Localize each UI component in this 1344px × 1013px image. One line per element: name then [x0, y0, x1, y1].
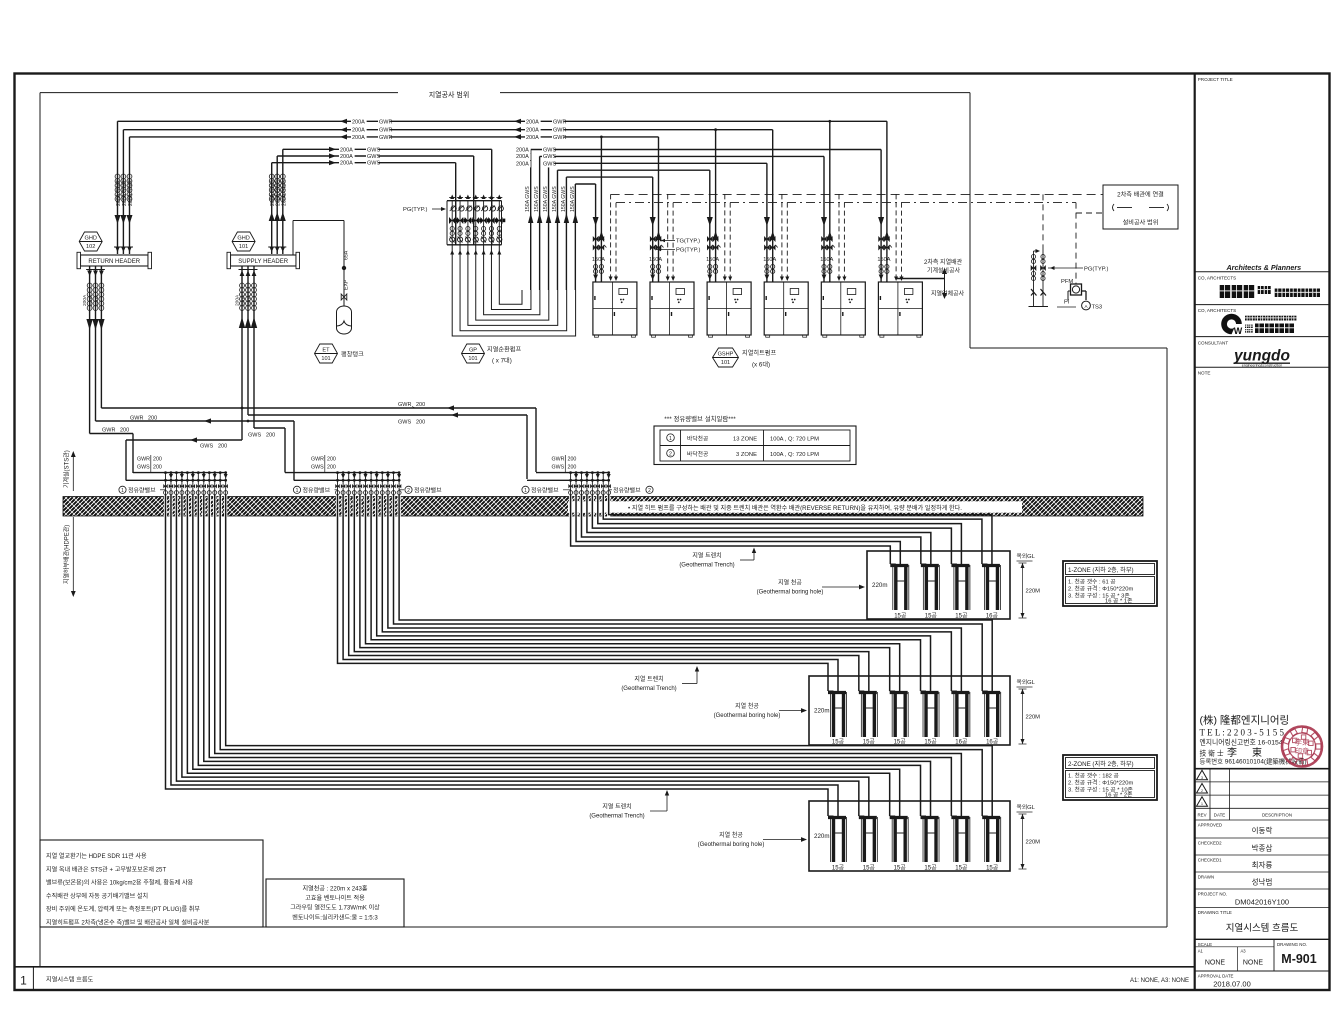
svg-text:DRAWN: DRAWN [1198, 875, 1214, 880]
heat pump symbol GSHP-101 and label [713, 348, 777, 369]
svg-text:200A: 200A [340, 147, 353, 153]
svg-text:GWR: GWR [398, 402, 411, 408]
svg-text:지열히트펌프 2차측(냉온수 측)밸브 및 배관공사 일체: 지열히트펌프 2차측(냉온수 측)밸브 및 배관공사 일체 설비공사분 [46, 919, 210, 927]
svg-text:16공: 16공 [955, 739, 968, 746]
svg-text:1: 1 [524, 488, 527, 494]
svg-text:150A: 150A [649, 257, 662, 263]
svg-text:DATE: DATE [1214, 813, 1225, 818]
svg-text:2. 천공 규격 : Φ150*220m: 2. 천공 규격 : Φ150*220m [1068, 585, 1133, 593]
svg-text:M-901: M-901 [1281, 952, 1316, 966]
general notes box [40, 840, 263, 927]
title block left edge [1194, 73, 1196, 990]
svg-text:GWR: GWR [311, 457, 324, 463]
svg-text:200A: 200A [352, 135, 365, 141]
svg-text:3 ZONE: 3 ZONE [736, 452, 757, 458]
secondary scope dashed line upper [611, 193, 1103, 195]
borehole group 1 hole count labels [894, 613, 998, 620]
expansion tank symbol ET-101 [315, 344, 338, 363]
manifold2 flow valve tag left [293, 486, 337, 494]
manifold3 flow valve tag right [609, 486, 653, 494]
pump group PG(TYP.) gauge label [403, 207, 446, 213]
trench label 3 [589, 790, 669, 820]
svg-text:200: 200 [416, 420, 425, 426]
svg-text:yungdo: yungdo [1233, 348, 1290, 365]
svg-text:15공: 15공 [894, 739, 907, 746]
svg-text:220m: 220m [814, 708, 829, 715]
reverse return note in hatch [568, 501, 1022, 512]
svg-text:T E L : 2 2 0 3 - 5 1 5 5: T E L : 2 2 0 3 - 5 1 5 5 [1200, 728, 1285, 738]
trench pipe bundle 3 (manifold1 to group3) [166, 495, 993, 816]
svg-text:GWS: GWS [137, 465, 150, 471]
svg-text:밸브류(보온용)의 사용은 10kg/cm2용 주철제, 황: 밸브류(보온용)의 사용은 10kg/cm2용 주철제, 황동제 사용 [46, 879, 194, 887]
pipe GWR main top (3 lines with left bends to return header) [118, 120, 887, 282]
svg-text:15공: 15공 [925, 613, 938, 620]
svg-text:16 공 * 1존: 16 공 * 1존 [1105, 598, 1133, 605]
dashed drop to measuring station [1042, 194, 1044, 248]
svg-text:바닥천공: 바닥천공 [687, 450, 709, 458]
red approval stamp [1282, 727, 1322, 767]
svg-text:( x 7대): ( x 7대) [492, 357, 512, 365]
svg-text:• 지열 히트 펌프를 구성하는 배관 및 지중 트렌치 배: • 지열 히트 펌프를 구성하는 배관 및 지중 트렌치 배관은 역환수 배관(… [628, 504, 962, 512]
underground HDPE label [63, 517, 76, 597]
balancing valve assembly pipes [1029, 248, 1049, 307]
svg-text:200A: 200A [526, 135, 539, 141]
manifold3 flow valve tag left [522, 486, 571, 494]
pipe run GWR to manifold2 [96, 416, 295, 481]
svg-text:옥외GL: 옥외GL [1017, 804, 1036, 811]
svg-text:지열 열교환기는 HDPE SDR 11관 사용: 지열 열교환기는 HDPE SDR 11관 사용 [46, 852, 147, 860]
svg-text:100A , Q: 720 LPM: 100A , Q: 720 LPM [770, 452, 819, 458]
svg-text:200: 200 [218, 444, 227, 450]
return header GHD-102 symbol [79, 232, 102, 251]
manifold 1 valve drops [163, 471, 228, 497]
svg-text:1: 1 [20, 974, 27, 988]
pipe GWS supply (3 lines header to circulating pumps) [272, 149, 492, 254]
svg-text:200A: 200A [82, 294, 88, 306]
GWS 200A-GWS labels set2 [515, 147, 556, 167]
svg-text:150A GWS: 150A GWS [561, 186, 567, 212]
svg-text:200A GWS: 200A GWS [270, 180, 276, 206]
svg-text:150A: 150A [706, 257, 719, 263]
svg-text:2018.07.00: 2018.07.00 [1213, 980, 1251, 989]
svg-text:벤토나이트:실리카샌드:물 = 1:5:3: 벤토나이트:실리카샌드:물 = 1:5:3 [292, 913, 378, 921]
svg-text:APPROVAL DATE: APPROVAL DATE [1198, 973, 1234, 978]
svg-text:技 衛 士: 技 衛 士 [1200, 749, 1224, 758]
pump symbol GP-101 and label [462, 344, 522, 365]
svg-text:200A GWR: 200A GWR [122, 180, 128, 206]
svg-text:15공: 15공 [955, 865, 968, 872]
drawing area inner frame [39, 93, 41, 967]
svg-text:15공: 15공 [832, 865, 845, 872]
svg-text:1-ZONE (지하 2층, 하부): 1-ZONE (지하 2층, 하부) [1068, 566, 1134, 574]
svg-text:1: 1 [669, 436, 672, 442]
svg-text:지열 천공: 지열 천공 [735, 702, 759, 710]
GWR riser flex connectors and 200A GWR labels [115, 174, 134, 206]
svg-text:101: 101 [239, 244, 248, 250]
svg-text:150A GWS: 150A GWS [552, 186, 558, 212]
svg-text:200A: 200A [516, 161, 529, 167]
svg-text:GWS: GWS [311, 465, 324, 471]
svg-text:NOTE: NOTE [1198, 371, 1211, 376]
svg-text:16공: 16공 [986, 739, 999, 746]
svg-text:150A GWS: 150A GWS [525, 186, 531, 212]
pipe run GWR to manifold1 [90, 428, 133, 474]
boring spec notes box [266, 879, 404, 927]
GWR riser header tick arrows [114, 247, 133, 252]
svg-text:101: 101 [468, 356, 477, 362]
trench label 2 [621, 666, 699, 692]
supply drops 200A labels [235, 294, 253, 306]
svg-text:EXP: EXP [344, 279, 350, 290]
svg-text:200A: 200A [94, 294, 100, 306]
svg-text:PI: PI [1064, 300, 1070, 306]
svg-text:(x 6대): (x 6대) [752, 361, 770, 369]
approval rows [1195, 823, 1329, 890]
svg-text:101: 101 [321, 356, 330, 362]
svg-text:정유량밸브: 정유량밸브 [414, 486, 442, 494]
svg-text:TS3: TS3 [1092, 305, 1103, 311]
svg-text:200: 200 [153, 457, 162, 463]
svg-text:200A: 200A [352, 128, 365, 134]
svg-text:(Geothermal boring hole): (Geothermal boring hole) [698, 842, 765, 848]
svg-text:고효율 벤토나이트 적용: 고효율 벤토나이트 적용 [305, 894, 365, 902]
svg-text:150A: 150A [820, 257, 833, 263]
junction dots [241, 407, 250, 423]
svg-text:100A , Q: 720 LPM: 100A , Q: 720 LPM [770, 436, 819, 442]
svg-text:지열천공 : 220m x 243홀: 지열천공 : 220m x 243홀 [303, 885, 368, 893]
svg-text:1. 천공 갯수 : 182 공: 1. 천공 갯수 : 182 공 [1068, 772, 1120, 780]
svg-text:200A GWS: 200A GWS [276, 180, 282, 206]
manifold 3 buses [527, 473, 610, 481]
svg-text:GWR: GWR [553, 135, 566, 141]
svg-text:SUPPLY HEADER: SUPPLY HEADER [238, 259, 288, 265]
scope split labels at HP6 [897, 258, 965, 299]
svg-text:지열 옥내 배관은 STS관 + 고무발포보온재 25T: 지열 옥내 배관은 STS관 + 고무발포보온재 25T [46, 865, 166, 873]
trench pipe bundle 1 (manifold3 to group1) [571, 495, 992, 564]
GWS riser flex connectors and 200A GWS labels [269, 174, 287, 206]
svg-text:2: 2 [669, 452, 672, 458]
svg-text:1: 1 [296, 488, 299, 494]
svg-text:150A: 150A [763, 257, 776, 263]
svg-text:200: 200 [416, 402, 425, 408]
svg-text:15공: 15공 [894, 613, 907, 620]
manifold 3 bus tick arrows [574, 474, 611, 479]
scale and drawing number cells [1195, 939, 1329, 971]
svg-text:지열시스템 흐름도: 지열시스템 흐름도 [46, 976, 94, 984]
title block CO.ARCHITECTS 1 tomoon logo [1195, 276, 1329, 305]
svg-text:200A GWR: 200A GWR [128, 180, 134, 206]
dashed drop to PG line [1076, 203, 1103, 284]
svg-text:REV: REV [1197, 813, 1206, 818]
svg-text:지열히트펌프: 지열히트펌프 [742, 349, 776, 357]
svg-text:200A: 200A [340, 154, 353, 160]
svg-text:(Geothermal Trench): (Geothermal Trench) [679, 563, 734, 569]
svg-text:16공: 16공 [986, 613, 999, 620]
borehole group box 2 [809, 676, 1010, 745]
svg-text:ET: ET [322, 347, 330, 353]
svg-text:200A: 200A [247, 294, 253, 306]
svg-text:정유량밸브: 정유량밸브 [531, 486, 559, 494]
return header vessel [77, 252, 152, 268]
pump suction drops through group [456, 201, 492, 245]
svg-text:옥외GL: 옥외GL [1017, 553, 1036, 560]
pipe run GWR main to manifold3 upper [101, 402, 536, 472]
secondary connection note box [1103, 185, 1178, 229]
svg-text:150A: 150A [877, 257, 890, 263]
expansion tank relief valve [341, 294, 347, 300]
GWR flow arrows and 200A-GWR labels set1 [340, 119, 392, 141]
boring hole label 3 [698, 831, 807, 848]
svg-text:1. 천공 갯수 : 61 공: 1. 천공 갯수 : 61 공 [1068, 578, 1116, 586]
engineering firm info block [1200, 714, 1307, 766]
svg-text:2차측 지열배관: 2차측 지열배관 [924, 258, 963, 266]
svg-text:200: 200 [327, 465, 336, 471]
svg-text:NONE: NONE [1243, 960, 1264, 967]
supply header bottom pipes with flex and arrows [239, 266, 258, 440]
outdoor GL dimension group1 [1017, 553, 1041, 618]
title block architects-planners line [1195, 263, 1329, 272]
title block CO.ARCHITECTS 2 chungwoo logo [1195, 308, 1329, 337]
bottom title strip line [14, 966, 1195, 968]
svg-text:A1: A1 [1198, 949, 1204, 954]
strip cell divider [32, 967, 34, 990]
svg-text:印章: 印章 [1295, 747, 1309, 756]
svg-text:2: 2 [648, 488, 651, 494]
title block CONSULTANT yungdo logo [1195, 341, 1329, 368]
svg-text:지열공사 범위: 지열공사 범위 [429, 90, 470, 99]
svg-text:PROJECT NO.: PROJECT NO. [1198, 892, 1227, 897]
circulating pumps x7 with gauges and valves [449, 195, 505, 255]
svg-text:101: 101 [721, 360, 730, 366]
pump discharge nested U-turn pipes [452, 245, 575, 336]
manifold 1 buses [126, 473, 227, 481]
svg-text:GWR: GWR [552, 457, 565, 463]
svg-text:GWR: GWR [553, 128, 566, 134]
svg-text:200: 200 [120, 428, 129, 434]
svg-text:150A: 150A [592, 257, 605, 263]
svg-text:200A: 200A [241, 294, 247, 306]
svg-text:150A GWS: 150A GWS [543, 186, 549, 212]
svg-text:GWS: GWS [367, 147, 380, 153]
svg-text:바닥천공: 바닥천공 [687, 434, 709, 442]
svg-text:(株) 隆都엔지니어링: (株) 隆都엔지니어링 [1200, 714, 1290, 727]
outdoor GL dimension group3 [1017, 804, 1041, 869]
temperature sensor TS3 [1082, 301, 1103, 310]
borehole group 2 hole count labels [832, 739, 999, 746]
svg-text:CO, ARCHITECTS: CO, ARCHITECTS [1198, 276, 1237, 281]
svg-text:GWS: GWS [543, 148, 556, 154]
svg-text:GWS: GWS [543, 154, 556, 160]
secondary scope dash-dot line lower [616, 202, 1076, 204]
svg-text:15공: 15공 [832, 739, 845, 746]
assembly valves column2 [1040, 255, 1046, 296]
TG and PG typ labels at HP2 [656, 239, 700, 254]
svg-text:PROJECT TITLE: PROJECT TITLE [1198, 77, 1233, 82]
svg-text:16 공 * 2존: 16 공 * 2존 [1105, 792, 1133, 799]
svg-text:15공: 15공 [986, 865, 999, 872]
svg-text:1: 1 [121, 488, 124, 494]
supply header vessel [227, 252, 300, 268]
svg-text:옥외GL: 옥외GL [1017, 679, 1036, 686]
manifold 2 valve drops [335, 471, 401, 497]
svg-text:李: 李 [1227, 746, 1237, 759]
svg-text:220m: 220m [872, 582, 887, 589]
svg-text:지열 트렌치: 지열 트렌치 [602, 803, 631, 811]
svg-text:SCALE: SCALE [1198, 942, 1212, 947]
svg-text:GHD: GHD [237, 235, 249, 241]
heat pump secondary dashed pipes [609, 194, 904, 282]
svg-text:15공: 15공 [955, 613, 968, 620]
return header bottom pipes with flex and arrows [86, 266, 105, 434]
svg-text:220m: 220m [814, 833, 829, 840]
svg-text:200A: 200A [516, 148, 529, 154]
svg-text:정유량밸브: 정유량밸브 [613, 486, 641, 494]
svg-text:설비공사 범위: 설비공사 범위 [1123, 219, 1159, 227]
svg-text:200A: 200A [235, 294, 241, 306]
svg-text:기계실(STS관): 기계실(STS관) [63, 450, 71, 488]
svg-text:지열 트렌치: 지열 트렌치 [692, 552, 721, 560]
pipe run GWS to manifold1 [126, 437, 242, 480]
svg-text:CHECKED2: CHECKED2 [1198, 841, 1222, 846]
borehole group box 1 [867, 551, 1010, 619]
assembly valves column1 [1031, 255, 1037, 296]
machine room STS label [63, 450, 76, 491]
manifold 3 valve drops [568, 471, 610, 497]
svg-text:장비 주위에 온도계, 압력계 또는 측정포트(PT PLU: 장비 주위에 온도계, 압력계 또는 측정포트(PT PLUG)를 취부 [46, 905, 200, 913]
svg-text:GWR: GWR [553, 119, 566, 125]
borehole group 2 U-tubes [828, 691, 1001, 737]
borehole group 1 U-tubes [890, 564, 1000, 610]
borehole group 3 U-tubes [828, 816, 1001, 862]
riser up arrows [528, 213, 578, 223]
svg-text:박종삼: 박종삼 [1252, 843, 1273, 853]
svg-text:DESCRIPTION: DESCRIPTION [1262, 813, 1292, 818]
svg-text:RETURN HEADER: RETURN HEADER [88, 259, 140, 265]
svg-text:15공: 15공 [894, 865, 907, 872]
ground hatch band [63, 497, 1143, 517]
svg-text:200: 200 [266, 433, 275, 439]
svg-text:지열 천공: 지열 천공 [719, 831, 743, 839]
svg-text:A3: A3 [1241, 949, 1247, 954]
pressure indicator PI [1057, 300, 1076, 308]
svg-text:GWR: GWR [379, 119, 392, 125]
manifold 2 bus tick arrows [341, 474, 401, 479]
svg-text:엔지니어링신고번호 16-0154: 엔지니어링신고번호 16-0154 [1200, 738, 1283, 747]
svg-text:2. 천공 규격 : Φ150*220m: 2. 천공 규격 : Φ150*220m [1068, 779, 1133, 787]
trench label 1 [679, 548, 756, 569]
svg-text:GWS: GWS [248, 433, 261, 439]
svg-text:15공: 15공 [863, 739, 876, 746]
GWR 200A-GWR labels set2 [514, 119, 566, 141]
svg-text:200A: 200A [516, 154, 529, 160]
svg-text:2차측 배관에 연결: 2차측 배관에 연결 [1117, 191, 1164, 199]
flow valve schedule table [654, 426, 856, 465]
svg-text:200: 200 [568, 457, 577, 463]
svg-text:DRAWING TITLE: DRAWING TITLE [1198, 910, 1232, 915]
expansion tank shutoff dot valve [342, 266, 346, 270]
svg-text:GWS: GWS [367, 154, 380, 160]
svg-text:GWR: GWR [130, 416, 143, 422]
svg-text:(Geothermal Trench): (Geothermal Trench) [621, 686, 676, 692]
svg-text:200A: 200A [352, 119, 365, 125]
svg-text:*** 정유량밸브 설치일람***: *** 정유량밸브 설치일람*** [664, 414, 736, 423]
manifold3 GWR/GWS-200 labels [552, 455, 577, 473]
GWR riser down arrows [115, 215, 133, 224]
svg-text:13 ZONE: 13 ZONE [733, 436, 757, 442]
svg-text:李東: 李東 [1295, 737, 1311, 747]
svg-text:15공: 15공 [924, 865, 937, 872]
svg-text:(Geothermal boring hole): (Geothermal boring hole) [714, 713, 781, 719]
manifold 1 bus tick arrows [169, 474, 228, 479]
GWS riser up arrows [269, 212, 286, 221]
svg-text:GWS: GWS [543, 161, 556, 167]
svg-text:최자룡: 최자룡 [1252, 860, 1273, 870]
boring hole label 1 [757, 579, 865, 596]
svg-text:GHD: GHD [84, 235, 96, 241]
svg-text:DRAWING NO.: DRAWING NO. [1277, 942, 1307, 947]
flow meter PFM [1061, 279, 1086, 300]
supply header GHD-101 symbol [232, 232, 255, 251]
svg-text:APPROVED: APPROVED [1198, 823, 1222, 828]
svg-text:(Geothermal boring hole): (Geothermal boring hole) [757, 590, 824, 596]
svg-text:200A: 200A [526, 119, 539, 125]
borehole group 3 hole count labels [832, 865, 999, 872]
svg-text:지열 천공: 지열 천공 [778, 579, 802, 587]
project number cell [1195, 892, 1329, 908]
svg-text:2: 2 [1201, 789, 1203, 793]
svg-text:15공: 15공 [924, 739, 937, 746]
boring hole label 2 [714, 702, 807, 719]
manifold2 GWR/GWS-200 labels [311, 455, 336, 473]
svg-text:200: 200 [327, 457, 336, 463]
pipe run GWS main to manifold3 lower [248, 412, 527, 479]
svg-text:CHECKED1: CHECKED1 [1198, 858, 1222, 863]
svg-text:3: 3 [1201, 776, 1203, 780]
svg-text:220M: 220M [1026, 840, 1041, 846]
svg-text:102: 102 [86, 244, 95, 250]
svg-text:그라우팅 열전도도 1.73W/mK 이상: 그라우팅 열전도도 1.73W/mK 이상 [290, 904, 380, 912]
svg-text:지열 트렌치: 지열 트렌치 [634, 675, 663, 683]
svg-text:GWR: GWR [379, 128, 392, 134]
assembly PG(TYP.) label [1048, 266, 1108, 273]
approval date cell [1198, 973, 1251, 988]
svg-text:PG(TYP.): PG(TYP.) [403, 207, 427, 213]
circulating pump group buses [447, 201, 502, 245]
svg-text:지열업체공사: 지열업체공사 [931, 290, 965, 298]
svg-text:200: 200 [153, 465, 162, 471]
heat pump boxes x6 [593, 282, 923, 337]
heat pump 150A labels [592, 257, 891, 263]
svg-text:팽창탱크: 팽창탱크 [341, 351, 364, 359]
manifold1 flow valve tag [119, 486, 166, 494]
svg-text:지열시스템 흐름도: 지열시스템 흐름도 [1226, 922, 1299, 934]
svg-text:東: 東 [1252, 746, 1262, 759]
svg-text:GWR: GWR [137, 457, 150, 463]
svg-text:200: 200 [568, 465, 577, 471]
GWS flow arrows and 200A-GWS labels set1 [329, 147, 380, 167]
svg-text:GSHP: GSHP [718, 351, 734, 357]
zone info box 2-ZONE [1063, 755, 1157, 800]
svg-text:정유량밸브: 정유량밸브 [128, 486, 156, 494]
svg-text:정유량밸브: 정유량밸브 [303, 486, 331, 494]
svg-text:NONE: NONE [1205, 960, 1226, 967]
svg-text:1: 1 [1201, 802, 1203, 806]
heat pump connection valves and arrows [593, 217, 892, 286]
svg-text:TG(TYP.): TG(TYP.) [676, 239, 700, 245]
trench pipe bundle 2 (manifold2 to group2) [338, 495, 993, 691]
svg-text:GWS: GWS [398, 420, 411, 426]
svg-text:GWS: GWS [367, 161, 380, 167]
